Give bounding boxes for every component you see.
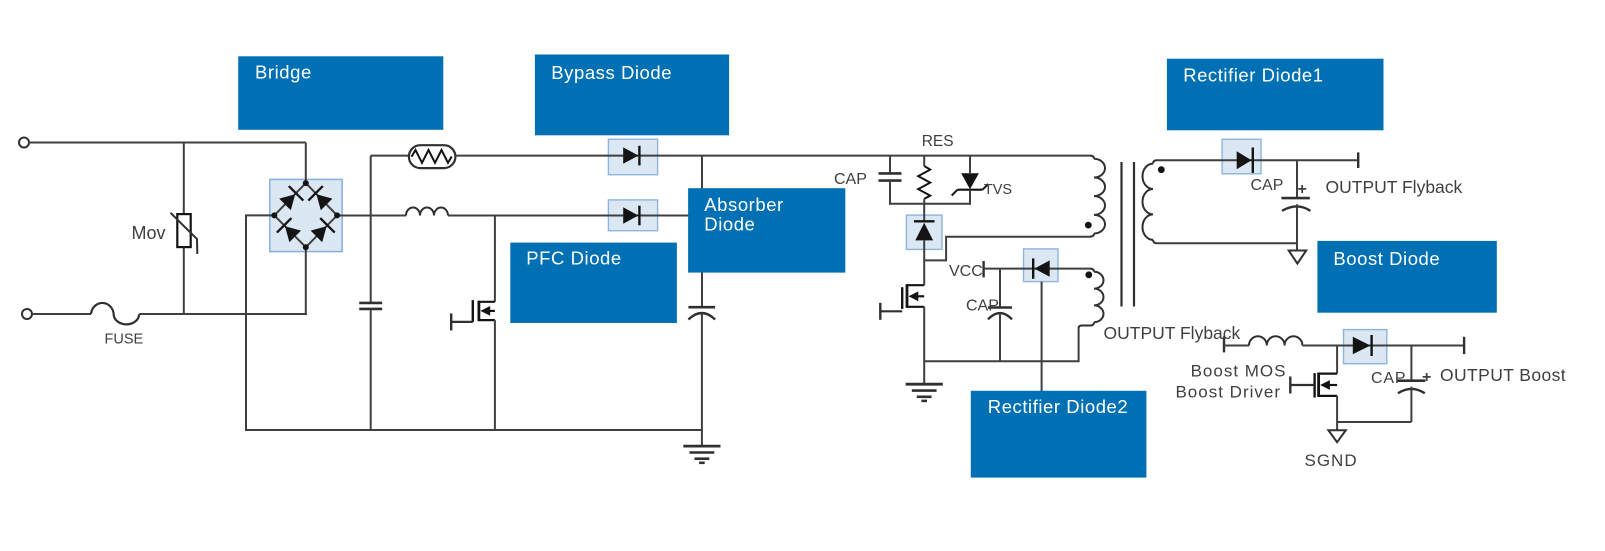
- bridge node 4: [303, 244, 309, 250]
- label box Bridge: [238, 56, 443, 130]
- wire boost cap to SGND rail: [1410, 387, 1412, 422]
- transistor boost MOSFET: [1319, 373, 1338, 375]
- svg-text:VCC: VCC: [949, 263, 983, 280]
- wire boost source rail: [1337, 421, 1411, 423]
- svg-text:Rectifier Diode2: Rectifier Diode2: [988, 396, 1128, 417]
- svg-text:Bridge: Bridge: [255, 62, 312, 83]
- svg-text:OUTPUT Flyback: OUTPUT Flyback: [1104, 323, 1241, 343]
- bridge node 2: [271, 212, 277, 218]
- phase dot primary: [1085, 222, 1092, 229]
- wire top AC line: [29, 142, 306, 144]
- svg-text:CAP: CAP: [834, 171, 867, 188]
- capacitor boost output CAP: [1397, 379, 1425, 382]
- terminal OUTPUT Flyback tick: [1357, 152, 1359, 168]
- bridge node 3: [334, 212, 340, 218]
- wire primary return jog: [924, 237, 1090, 261]
- PFC diode highlight box: [608, 200, 657, 231]
- wire rect diode2 to aux winding: [1058, 268, 1091, 270]
- label box Absorber Diode: [688, 188, 845, 272]
- wire DC bus cap to ground: [701, 313, 703, 446]
- wire TVS bottom lead: [969, 190, 971, 205]
- ground SGND (arrow): [1328, 430, 1345, 442]
- wire rect diode1 to output: [1261, 159, 1359, 161]
- rectifier diode2 highlight box: [1024, 249, 1059, 282]
- capacitor bulk DC: [359, 302, 382, 305]
- fuse FUSE: [91, 303, 139, 324]
- resistor RES snubber: [918, 166, 930, 199]
- wire bypass diode to primary: [658, 155, 1091, 157]
- svg-text:SGND: SGND: [1305, 451, 1358, 470]
- transistor PFC MOSFET: [479, 301, 495, 303]
- wire flyback cap to return: [1296, 204, 1298, 243]
- svg-text:CAP: CAP: [1371, 370, 1406, 387]
- terminal boost input tick: [1223, 336, 1225, 352]
- absorber diode highlight box: [906, 215, 942, 249]
- wire snubber cap to bottom: [889, 181, 891, 205]
- transistor main flyback MOSFET: [907, 284, 924, 286]
- inductor boost: [1249, 336, 1302, 345]
- wire bridge bottom leg: [305, 247, 307, 315]
- diode bypass: [623, 147, 638, 163]
- svg-text:Mov: Mov: [132, 223, 166, 243]
- svg-text:Absorber: Absorber: [704, 194, 783, 215]
- svg-text:+: +: [1298, 181, 1307, 198]
- wire VCC to rect diode2: [984, 268, 1058, 270]
- transformer primary winding: [1090, 156, 1094, 159]
- ground PFC earth: [683, 445, 720, 448]
- bridge diode bottom-right: [311, 226, 327, 242]
- inductor PFC choke: [406, 208, 448, 216]
- wire snubber to absorber diode: [923, 204, 925, 222]
- wire MOV upper branch: [183, 143, 185, 215]
- wire boost MOSFET drain: [1336, 346, 1338, 374]
- label box PFC Diode: [510, 243, 677, 323]
- wire RES top lead: [923, 156, 925, 166]
- wire RES bottom lead: [923, 199, 925, 204]
- svg-text:Boost Diode: Boost Diode: [1333, 248, 1440, 269]
- bridge diode top-left: [279, 194, 295, 210]
- wire fuse right to bridge: [139, 313, 307, 315]
- svg-text:OUTPUT Boost: OUTPUT Boost: [1440, 365, 1566, 385]
- terminal VCC tick: [982, 261, 984, 277]
- bypass diode highlight box: [608, 139, 657, 175]
- svg-text:FUSE: FUSE: [105, 332, 144, 348]
- rectifier diode1 highlight box: [1222, 139, 1261, 174]
- wire secondary return: [1157, 242, 1297, 244]
- svg-text:OUTPUT Flyback: OUTPUT Flyback: [1326, 177, 1463, 197]
- wire NTC to bypass diode: [455, 155, 658, 157]
- svg-text:Boost Driver: Boost Driver: [1175, 383, 1281, 402]
- wire boost input: [1224, 345, 1249, 347]
- label box Bypass Diode: [535, 55, 729, 136]
- bridge node 1: [303, 180, 309, 186]
- wire snubber bottom: [889, 203, 971, 205]
- phase dot aux: [1085, 271, 1092, 278]
- terminal AC line: [19, 138, 29, 148]
- wire boost diode to output: [1386, 345, 1464, 347]
- diode TVS clamp: [961, 173, 979, 189]
- capacitor snubber CAP: [879, 172, 902, 175]
- svg-text:RES: RES: [922, 133, 954, 150]
- varistor Mov: [177, 214, 190, 247]
- wire PFC diode output (under label): [658, 215, 704, 217]
- diode boost: [1353, 337, 1371, 354]
- transformer aux winding: [1090, 269, 1094, 272]
- wire boost MOSFET source: [1336, 396, 1338, 422]
- terminal AC neutral: [22, 309, 32, 319]
- svg-text:PFC Diode: PFC Diode: [526, 248, 621, 269]
- wire bridge top leg: [305, 143, 307, 184]
- wire secondary to rect diode1: [1157, 159, 1261, 161]
- bridge rectifier highlight box: [270, 179, 342, 251]
- wire TVS top lead: [969, 156, 971, 174]
- transformer secondary winding: [1153, 160, 1157, 163]
- svg-text:CAP: CAP: [966, 298, 999, 315]
- capacitor VCC CAP: [988, 306, 1012, 309]
- svg-text:CAP: CAP: [1251, 177, 1284, 194]
- wire bulk cap branch bottom: [370, 309, 372, 430]
- capacitor PFC output: [688, 306, 715, 309]
- svg-text:Boost MOS: Boost MOS: [1191, 362, 1287, 381]
- wire aux bottom rail: [924, 329, 1078, 362]
- boost diode highlight box: [1344, 330, 1387, 364]
- wire bridge right output: [337, 215, 406, 217]
- wire MOV lower branch: [183, 248, 185, 316]
- wire rect diode2 label leader: [1041, 282, 1043, 391]
- thermistor NTC inrush limiter: [409, 145, 456, 168]
- bridge diamond: [274, 183, 337, 247]
- label box Rectifier Diode2: [971, 391, 1147, 478]
- label box Rectifier Diode1: [1167, 59, 1384, 131]
- wire bulk cap branch top: [370, 156, 372, 303]
- wire boost inductor to diode: [1302, 345, 1387, 347]
- svg-text:TVS: TVS: [984, 182, 1012, 198]
- bridge diode bottom-left: [285, 226, 301, 242]
- wire choke to PFC diode: [448, 215, 658, 217]
- wire fuse left: [32, 313, 91, 315]
- wire snubber cap branch: [889, 156, 891, 173]
- wire flyback ground stub: [1296, 243, 1298, 250]
- terminal OUTPUT Boost tick: [1463, 337, 1465, 354]
- svg-text:+: +: [1422, 369, 1431, 386]
- label box Boost Diode: [1317, 241, 1496, 313]
- svg-text:Rectifier Diode1: Rectifier Diode1: [1183, 65, 1323, 86]
- wire boost cap branch: [1410, 346, 1412, 381]
- wire VCC cap branch: [999, 269, 1001, 308]
- wire to NTC: [371, 155, 410, 157]
- diode PFC: [623, 207, 638, 223]
- wire VCC cap to rail: [999, 313, 1001, 362]
- transformer core: [1120, 162, 1122, 307]
- phase dot secondary: [1158, 166, 1165, 173]
- diode rectifier2 (left): [1034, 260, 1049, 276]
- svg-text:Diode: Diode: [704, 213, 755, 234]
- diode absorber (up): [914, 220, 935, 222]
- svg-text:Bypass Diode: Bypass Diode: [551, 62, 672, 83]
- wire bridge left to DC- rail: [246, 215, 702, 430]
- wire main MOSFET source to ground: [923, 307, 925, 384]
- wire PFC MOSFET source: [494, 320, 496, 430]
- wire SGND stub: [1336, 422, 1338, 430]
- bridge diode top-right: [316, 194, 332, 210]
- wire flyback cap branch: [1296, 160, 1298, 198]
- wire absorber diode to MOSFET drain: [923, 240, 925, 285]
- ground flyback (arrow): [1289, 251, 1307, 264]
- diode rectifier1 (right): [1237, 151, 1252, 169]
- wire PFC MOSFET drain: [494, 216, 496, 302]
- ground primary earth: [906, 383, 943, 386]
- capacitor flyback output CAP: [1281, 197, 1309, 200]
- wire DC bus down (under absorber label): [701, 156, 703, 308]
